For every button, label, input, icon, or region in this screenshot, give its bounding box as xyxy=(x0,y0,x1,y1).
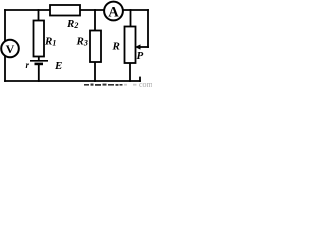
wire top-left horizontal xyxy=(5,9,50,11)
wire top-right horizontal xyxy=(123,9,148,11)
wire battery to bottom stub xyxy=(38,65,40,82)
wire R1 to battery stub xyxy=(38,57,40,61)
wire R bottom stub xyxy=(129,63,131,81)
svg-text:r: r xyxy=(26,60,30,70)
resistor R2 (box) xyxy=(50,5,80,16)
battery E short plate xyxy=(35,63,44,66)
svg-text:V: V xyxy=(6,42,15,56)
svg-text:P: P xyxy=(137,50,144,62)
watermark dashes bottom xyxy=(84,84,123,86)
wire bottom horizontal xyxy=(5,80,140,82)
wire R top stub xyxy=(130,10,132,27)
svg-text:A: A xyxy=(108,4,119,20)
svg-text:R2: R2 xyxy=(66,18,78,30)
svg-text:E: E xyxy=(54,60,62,72)
ammeter A circle xyxy=(104,2,123,21)
resistor R (box) xyxy=(125,27,136,64)
svg-text:R3: R3 xyxy=(76,36,88,48)
svg-text:R: R xyxy=(112,41,120,53)
resistor R3 (box) xyxy=(90,31,101,63)
wire wiper horizontal xyxy=(139,46,148,48)
wire left vertical upper xyxy=(4,10,6,41)
svg-text:R1: R1 xyxy=(44,36,56,48)
wire R3 bottom stub xyxy=(94,62,96,81)
wire top-middle horizontal xyxy=(80,9,104,11)
resistor R1 (box) xyxy=(34,21,45,57)
wire left vertical lower xyxy=(4,56,6,81)
watermark faint dashes xyxy=(124,84,137,86)
wire R3 top stub xyxy=(94,10,96,31)
svg-text:com: com xyxy=(139,80,152,88)
wire right vertical (wiper branch) xyxy=(147,10,149,47)
wiper arrowhead on R xyxy=(135,44,141,49)
voltmeter V circle xyxy=(1,40,19,58)
battery E long plate xyxy=(30,60,48,62)
wire bottom right tick xyxy=(139,78,141,82)
wire R1 top stub xyxy=(38,10,40,21)
